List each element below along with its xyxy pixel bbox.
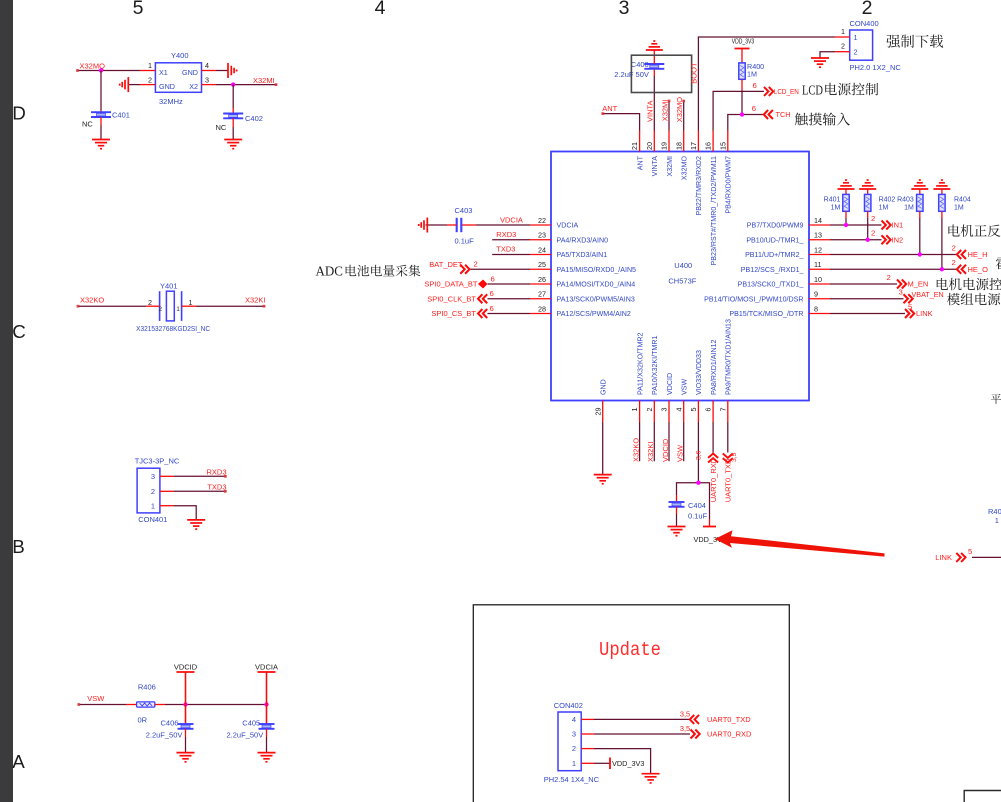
svg-text:UART0_TXD: UART0_TXD bbox=[707, 715, 751, 724]
svg-text:PA11/X32KO/TMR2: PA11/X32KO/TMR2 bbox=[636, 333, 644, 395]
annotation force download bbox=[886, 35, 943, 48]
svg-text:6: 6 bbox=[704, 408, 713, 412]
svg-text:2: 2 bbox=[854, 48, 858, 57]
svg-text:LINK: LINK bbox=[935, 553, 952, 562]
svg-text:6: 6 bbox=[490, 289, 494, 298]
wire net X32MQ pin1 bbox=[77, 70, 140, 72]
svg-text:20: 20 bbox=[645, 142, 654, 150]
svg-text:3: 3 bbox=[899, 288, 903, 297]
wire pin18 net X32MO bbox=[683, 100, 685, 130]
annotation motor power ctrl bbox=[937, 278, 1001, 290]
svg-text:2.2uF_50V: 2.2uF_50V bbox=[227, 731, 264, 740]
svg-text:TXD3: TXD3 bbox=[207, 482, 226, 491]
svg-text:5: 5 bbox=[689, 408, 698, 412]
svg-text:3,5: 3,5 bbox=[731, 452, 738, 462]
svg-text:13: 13 bbox=[814, 231, 822, 240]
connector CON402 PH2.54 1X4 bbox=[544, 701, 600, 784]
svg-text:VDCIA: VDCIA bbox=[255, 663, 278, 672]
svg-text:1M: 1M bbox=[904, 204, 914, 211]
svg-text:8: 8 bbox=[814, 304, 818, 313]
svg-text:21: 21 bbox=[630, 142, 639, 150]
ground R403 (inverted) bbox=[911, 188, 928, 190]
svg-text:2: 2 bbox=[645, 408, 654, 412]
port SPI0_CLK_BT pin27 bbox=[488, 298, 531, 300]
svg-text:PA15/MISO/RXD0_/AIN5: PA15/MISO/RXD0_/AIN5 bbox=[557, 266, 637, 274]
svg-text:C403: C403 bbox=[455, 206, 473, 215]
svg-text:VDD_3V3: VDD_3V3 bbox=[612, 759, 644, 768]
resistor R400 1M bbox=[739, 63, 745, 79]
svg-text:3,5: 3,5 bbox=[680, 710, 690, 719]
svg-text:PA12/SCS/PWM4/AIN2: PA12/SCS/PWM4/AIN2 bbox=[557, 310, 631, 318]
capacitor C405 bbox=[266, 705, 268, 725]
port UART0_RXD CON402 pin3 bbox=[581, 733, 594, 735]
svg-text:PA8/RXD1/AIN12: PA8/RXD1/AIN12 bbox=[710, 339, 718, 395]
resistor R404 1M bbox=[941, 189, 943, 194]
svg-text:RXD3: RXD3 bbox=[496, 230, 516, 239]
svg-text:CON402: CON402 bbox=[554, 701, 583, 710]
svg-text:PB12/SCS_/RXD1_: PB12/SCS_/RXD1_ bbox=[741, 266, 805, 274]
wire CON401 pin2 net TXD3 bbox=[160, 490, 174, 492]
BOOT option box bbox=[631, 55, 691, 92]
ground C405 bbox=[258, 752, 276, 754]
ground C400 (inverted) bbox=[646, 49, 663, 51]
svg-text:VSW: VSW bbox=[87, 694, 105, 703]
wire pin3 net VDCID bbox=[668, 422, 670, 461]
svg-text:9: 9 bbox=[814, 290, 818, 299]
svg-text:LINK: LINK bbox=[916, 309, 933, 318]
svg-text:CON401: CON401 bbox=[138, 515, 167, 524]
port LCD_EN pin16 bbox=[713, 91, 764, 130]
svg-text:1: 1 bbox=[151, 502, 155, 511]
svg-text:TXD3: TXD3 bbox=[496, 245, 515, 254]
wire pin5 to C404 junction bbox=[697, 422, 699, 483]
svg-text:3: 3 bbox=[660, 408, 669, 412]
svg-text:VINTA: VINTA bbox=[646, 100, 655, 122]
net VSW wire bbox=[78, 704, 126, 706]
svg-text:PA4/RXD3/AIN0: PA4/RXD3/AIN0 bbox=[557, 236, 609, 244]
resistor R402 1M bbox=[867, 189, 869, 194]
wire net X32MI pin3 bbox=[202, 84, 217, 86]
junction VDCID node bbox=[183, 702, 187, 706]
ground pin29 bbox=[594, 474, 612, 476]
capacitor C400 2.2uF 50V bbox=[644, 63, 664, 65]
ground C404 bbox=[668, 526, 686, 528]
svg-text:X321532768KGD2SI_NC: X321532768KGD2SI_NC bbox=[136, 324, 210, 333]
wire C401 to ground bbox=[100, 117, 102, 125]
svg-text:VSW: VSW bbox=[676, 444, 685, 462]
svg-text:LCD: LCD bbox=[802, 83, 823, 98]
port UART0_TXD pin7 bbox=[727, 422, 729, 453]
svg-text:X32MI: X32MI bbox=[253, 76, 275, 85]
svg-text:3: 3 bbox=[205, 76, 209, 85]
svg-text:1M: 1M bbox=[831, 204, 841, 211]
svg-text:2: 2 bbox=[148, 76, 152, 85]
wire net RXD3 pin23 bbox=[492, 239, 530, 241]
svg-text:LCD_EN: LCD_EN bbox=[774, 87, 799, 96]
svg-text:22: 22 bbox=[538, 216, 546, 225]
wire R403 to pin12 junction bbox=[919, 211, 921, 218]
svg-text:C404: C404 bbox=[688, 501, 706, 510]
wire CON401 pin3 net RXD3 bbox=[160, 475, 174, 477]
capacitor C401 bbox=[91, 111, 111, 113]
port IN2 pin13 bbox=[830, 239, 882, 241]
svg-text:2.2uF_50V: 2.2uF_50V bbox=[146, 731, 183, 740]
wire net TXD3 pin24 bbox=[492, 254, 530, 256]
svg-text:X32MO: X32MO bbox=[681, 156, 689, 181]
svg-text:PB7/TXD0/PWM9: PB7/TXD0/PWM9 bbox=[747, 222, 804, 230]
port TCH pin15 bbox=[728, 115, 764, 131]
svg-text:PH2.54 1X4_NC: PH2.54 1X4_NC bbox=[544, 775, 600, 784]
junction pin5 node bbox=[696, 481, 700, 485]
svg-text:PB11/UD+/TMR2_: PB11/UD+/TMR2_ bbox=[745, 251, 804, 259]
wire C405 to ground bbox=[266, 729, 268, 737]
power VDD_3V3 CON402 pin1 bbox=[581, 762, 594, 764]
svg-text:VDCIA: VDCIA bbox=[500, 215, 523, 224]
wire net X32KI bbox=[182, 305, 196, 307]
wire net ANT pin21 bbox=[602, 114, 640, 131]
svg-text:X32KI: X32KI bbox=[646, 442, 655, 462]
wire Y400 pin2 to ground bbox=[128, 84, 140, 86]
svg-text:28: 28 bbox=[538, 304, 546, 313]
wire C403 to ground bbox=[426, 224, 448, 226]
wire pin1 net X32KO bbox=[639, 422, 641, 461]
svg-text:32MHz: 32MHz bbox=[159, 97, 183, 106]
junction X32MQ bbox=[99, 68, 103, 72]
svg-text:5: 5 bbox=[908, 302, 912, 311]
port BAT_DET pin25 bbox=[469, 268, 530, 270]
svg-text:GND: GND bbox=[159, 82, 175, 91]
wire X32MQ down to C401 bbox=[100, 71, 102, 111]
svg-text:R403: R403 bbox=[897, 197, 914, 204]
svg-text:PB4/RXD0/PWM7: PB4/RXD0/PWM7 bbox=[725, 156, 733, 214]
annotation touch input bbox=[795, 113, 850, 126]
svg-text:4: 4 bbox=[674, 408, 683, 412]
svg-text:2: 2 bbox=[871, 229, 875, 238]
svg-text:B: B bbox=[12, 536, 25, 557]
wire net VDCIA pin22 bbox=[461, 224, 476, 226]
svg-text:TJC3-3P_NC: TJC3-3P_NC bbox=[135, 457, 180, 466]
svg-text:PB13/SCK0_/TXD1_: PB13/SCK0_/TXD1_ bbox=[738, 281, 805, 289]
capacitor C403 0.1uF bbox=[456, 218, 458, 232]
wire LINK right bbox=[972, 556, 1001, 558]
svg-text:0R: 0R bbox=[138, 715, 148, 724]
port VBAT_EN pin9 bbox=[830, 298, 904, 300]
svg-text:0.1uF: 0.1uF bbox=[688, 512, 708, 521]
svg-text:25: 25 bbox=[538, 260, 546, 269]
wire CON400 pin2 to ground bbox=[835, 51, 850, 53]
capacitor C402 bbox=[223, 113, 243, 115]
resistor R401 1M bbox=[845, 189, 847, 194]
svg-text:15: 15 bbox=[718, 142, 727, 150]
svg-text:5: 5 bbox=[133, 0, 144, 19]
svg-text:ADC: ADC bbox=[316, 264, 344, 279]
port HE_H pin12 bbox=[830, 254, 957, 256]
svg-text:3: 3 bbox=[572, 730, 576, 739]
svg-text:VIO33/VDD33: VIO33/VDD33 bbox=[695, 350, 703, 395]
svg-text:5: 5 bbox=[968, 547, 972, 556]
svg-text:3,6: 3,6 bbox=[695, 450, 702, 460]
ground CON401 bbox=[187, 519, 205, 521]
svg-text:PA9/TMR0/TXD1/AIN13: PA9/TMR0/TXD1/AIN13 bbox=[725, 319, 733, 395]
wire pin19 net X32MI bbox=[668, 100, 670, 130]
wire CON402 pin2 to ground bbox=[581, 748, 594, 750]
svg-text:PA5/TXD3/AIN1: PA5/TXD3/AIN1 bbox=[557, 251, 608, 259]
svg-text:C405: C405 bbox=[242, 718, 260, 727]
svg-text:PA14/MOSI/TXD0_/AIN4: PA14/MOSI/TXD0_/AIN4 bbox=[557, 281, 636, 289]
wire R406 to junctions bbox=[155, 704, 165, 706]
junction VDCIA node bbox=[264, 702, 268, 706]
svg-text:D: D bbox=[12, 103, 26, 124]
svg-text:VSW: VSW bbox=[681, 379, 689, 395]
svg-text:1M: 1M bbox=[747, 70, 757, 79]
ground C401 bbox=[92, 139, 110, 141]
ground C403 bbox=[426, 218, 428, 233]
annotation arrow bbox=[715, 530, 885, 556]
junction X32MI bbox=[231, 82, 235, 86]
svg-text:BAT_DET: BAT_DET bbox=[429, 260, 463, 269]
svg-text:SPI0_DATA_BT: SPI0_DATA_BT bbox=[424, 280, 477, 289]
port SPI0_DATA_BT pin26 bbox=[488, 283, 531, 285]
wire pin29 GND to ground bbox=[602, 422, 604, 475]
svg-text:3,5: 3,5 bbox=[680, 724, 690, 733]
svg-text:4: 4 bbox=[205, 61, 209, 70]
svg-text:23: 23 bbox=[538, 231, 546, 240]
svg-text:6: 6 bbox=[753, 81, 757, 90]
svg-text:C406: C406 bbox=[161, 718, 179, 727]
svg-text:RXD3: RXD3 bbox=[206, 467, 226, 476]
capacitor C406 bbox=[185, 705, 187, 725]
svg-text:M_EN: M_EN bbox=[908, 280, 929, 289]
wire C400 to ground bbox=[653, 50, 655, 64]
wire R400 to TCH junction bbox=[741, 79, 743, 90]
svg-text:R40: R40 bbox=[988, 507, 1001, 516]
port IN1 pin14 bbox=[830, 224, 882, 226]
svg-text:U400: U400 bbox=[674, 261, 692, 270]
connector CON400 PH2.0 bbox=[850, 19, 902, 72]
wire C404 branch bbox=[677, 483, 710, 519]
svg-text:1: 1 bbox=[148, 61, 152, 70]
svg-text:GND: GND bbox=[600, 379, 608, 395]
power VDCID bbox=[185, 672, 187, 705]
svg-text:PA13/SCK0/PWM5/AIN3: PA13/SCK0/PWM5/AIN3 bbox=[557, 295, 635, 303]
ground R402 (inverted) bbox=[859, 188, 876, 190]
svg-text:NC: NC bbox=[82, 120, 93, 129]
svg-text:CON400: CON400 bbox=[850, 19, 879, 28]
port LINK pin8 bbox=[830, 313, 905, 315]
svg-text:12: 12 bbox=[814, 245, 822, 254]
svg-text:VDCIA: VDCIA bbox=[557, 222, 579, 230]
svg-text:X32KO: X32KO bbox=[80, 296, 104, 305]
svg-text:VDD_3V3: VDD_3V3 bbox=[732, 37, 755, 46]
svg-text:16: 16 bbox=[704, 142, 713, 150]
svg-text:GND: GND bbox=[182, 68, 198, 77]
wire C402 to ground bbox=[232, 118, 234, 127]
svg-text:1: 1 bbox=[176, 306, 180, 313]
svg-text:SPI0_CLK_BT: SPI0_CLK_BT bbox=[427, 294, 476, 303]
svg-text:UART0_TXD: UART0_TXD bbox=[724, 458, 733, 502]
annotation ping (clipped top right) bbox=[991, 394, 1001, 404]
power VDCIA bbox=[266, 672, 268, 705]
capacitor C404 0.1uF bbox=[669, 501, 685, 503]
svg-text:2: 2 bbox=[952, 243, 956, 252]
port SPI0_CS_BT pin28 bbox=[488, 313, 531, 315]
ground Y400 pin4 bbox=[227, 63, 229, 78]
svg-text:NC: NC bbox=[216, 123, 227, 132]
svg-text:CH573F: CH573F bbox=[668, 277, 696, 286]
svg-text:R406: R406 bbox=[138, 682, 156, 691]
resistor R403 1M bbox=[919, 189, 921, 194]
svg-text:4: 4 bbox=[572, 715, 576, 724]
port M_EN pin10 bbox=[830, 283, 897, 285]
svg-text:7: 7 bbox=[718, 408, 727, 412]
svg-text:2: 2 bbox=[151, 487, 155, 496]
svg-text:17: 17 bbox=[689, 142, 698, 150]
svg-text:2: 2 bbox=[474, 260, 478, 269]
svg-text:1M: 1M bbox=[879, 204, 889, 211]
port HE_O pin11 bbox=[830, 268, 957, 270]
svg-text:IN1: IN1 bbox=[892, 221, 904, 230]
Update section box bbox=[473, 605, 789, 802]
svg-text:X32MO: X32MO bbox=[675, 97, 684, 123]
svg-text:1: 1 bbox=[630, 408, 639, 412]
power VDD_3V3 down bbox=[709, 519, 711, 527]
svg-text:BOOT: BOOT bbox=[690, 62, 699, 84]
svg-text:VBAT_EN: VBAT_EN bbox=[912, 290, 944, 299]
annotation module power bbox=[947, 293, 1000, 305]
svg-text:3: 3 bbox=[619, 0, 630, 19]
svg-text:2: 2 bbox=[862, 0, 873, 19]
wire R404 to pin11 junction bbox=[941, 211, 943, 218]
svg-text:R402: R402 bbox=[879, 197, 896, 204]
svg-text:VINTA: VINTA bbox=[651, 156, 659, 177]
svg-text:10: 10 bbox=[814, 275, 822, 284]
svg-text:X32KO: X32KO bbox=[631, 438, 640, 462]
svg-text:3: 3 bbox=[151, 472, 155, 481]
svg-text:PB23/RST#/TMR0_/TXD2/PWM11: PB23/RST#/TMR0_/TXD2/PWM11 bbox=[710, 156, 718, 266]
svg-text:6: 6 bbox=[491, 274, 495, 283]
wire C406 to ground bbox=[185, 729, 187, 737]
svg-text:TCH: TCH bbox=[776, 110, 791, 119]
svg-text:1: 1 bbox=[572, 759, 576, 768]
wire X32MI down to C402 bbox=[232, 85, 234, 108]
svg-text:24: 24 bbox=[538, 245, 546, 254]
connector CON401 TJC3-3P_NC bbox=[135, 457, 180, 525]
svg-text:PH2.0 1X2_NC: PH2.0 1X2_NC bbox=[850, 63, 902, 72]
wire CON401 pin1 to ground bbox=[160, 505, 174, 507]
svg-text:11: 11 bbox=[814, 260, 821, 269]
svg-text:SPI0_CS_BT: SPI0_CS_BT bbox=[431, 309, 476, 318]
svg-text:2: 2 bbox=[952, 258, 956, 267]
svg-text:18: 18 bbox=[674, 142, 683, 150]
svg-text:2: 2 bbox=[572, 744, 576, 753]
svg-text:1: 1 bbox=[841, 27, 845, 36]
port UART0_RXD pin6 bbox=[712, 422, 714, 453]
crystal Y400 bbox=[148, 51, 209, 106]
wire pin4 net VSW bbox=[683, 422, 685, 461]
svg-text:2: 2 bbox=[871, 214, 875, 223]
section box bottom right (partial) bbox=[964, 791, 1001, 802]
svg-text:Y401: Y401 bbox=[160, 282, 178, 291]
resistor R406 0R bbox=[137, 702, 155, 707]
svg-text:C402: C402 bbox=[245, 114, 263, 123]
svg-text:HE_H: HE_H bbox=[968, 250, 988, 259]
svg-text:R401: R401 bbox=[824, 197, 841, 204]
svg-text:2: 2 bbox=[887, 273, 891, 282]
svg-text:X32KI: X32KI bbox=[245, 296, 265, 305]
svg-text:ANT: ANT bbox=[602, 104, 617, 113]
svg-text:Y400: Y400 bbox=[171, 51, 189, 60]
svg-text:PB14/TIO/MOSI_/PWM10/DSR: PB14/TIO/MOSI_/PWM10/DSR bbox=[704, 295, 803, 303]
svg-text:Update: Update bbox=[599, 639, 661, 661]
wire R401 to pin14 junction bbox=[845, 211, 847, 218]
svg-text:1: 1 bbox=[995, 516, 999, 525]
svg-text:X32MI: X32MI bbox=[666, 156, 674, 177]
svg-text:UART0_RXD: UART0_RXD bbox=[709, 457, 718, 502]
svg-text:PB15/TCK/MISO_/DTR: PB15/TCK/MISO_/DTR bbox=[729, 310, 803, 318]
svg-text:C400: C400 bbox=[631, 60, 649, 69]
svg-text:X1: X1 bbox=[159, 68, 168, 77]
svg-text:VDCID: VDCID bbox=[666, 373, 674, 395]
svg-text:6: 6 bbox=[490, 304, 494, 313]
svg-text:C: C bbox=[12, 321, 26, 342]
svg-text:1: 1 bbox=[854, 33, 858, 42]
svg-text:A: A bbox=[12, 751, 25, 772]
wire pin17 net BOOT to CON400 bbox=[698, 37, 835, 131]
annotation motor fwd/rev bbox=[948, 224, 1000, 236]
port UART0_TXD CON402 pin4 bbox=[581, 718, 594, 720]
ground CON402 bbox=[642, 773, 660, 775]
wire pin20 VINTA to C400 bbox=[653, 69, 655, 76]
svg-text:2: 2 bbox=[158, 306, 162, 313]
ground R404 (inverted) bbox=[933, 188, 950, 190]
svg-text:27: 27 bbox=[538, 290, 546, 299]
wire Y400 pin4 to ground bbox=[202, 70, 217, 72]
ground Y400 pin2 bbox=[127, 77, 129, 92]
svg-text:PA10/X32KI/TMR1: PA10/X32KI/TMR1 bbox=[651, 336, 659, 395]
svg-text:PB10/UD-/TMR1_: PB10/UD-/TMR1_ bbox=[746, 236, 804, 244]
svg-text:26: 26 bbox=[538, 275, 546, 284]
svg-text:14: 14 bbox=[814, 216, 822, 225]
svg-text:HE_O: HE_O bbox=[968, 265, 989, 274]
svg-text:PB22/TMR3/RXD2: PB22/TMR3/RXD2 bbox=[695, 156, 703, 216]
svg-text:ANT: ANT bbox=[636, 155, 644, 170]
svg-text:X32MI: X32MI bbox=[660, 100, 669, 122]
wire net X32KO bbox=[78, 305, 147, 307]
svg-text:VDCID: VDCID bbox=[174, 663, 198, 672]
junction TCH R400 bbox=[740, 112, 744, 116]
svg-text:1M: 1M bbox=[954, 204, 964, 211]
wire CON400 pin1 stub bbox=[835, 36, 850, 38]
svg-text:R404: R404 bbox=[954, 197, 971, 204]
ground C406 bbox=[177, 752, 195, 754]
svg-text:VDCID: VDCID bbox=[661, 438, 670, 462]
svg-text:UART0_RXD: UART0_RXD bbox=[707, 730, 752, 739]
svg-text:4: 4 bbox=[375, 0, 386, 19]
ground C402 bbox=[224, 139, 242, 141]
svg-text:C401: C401 bbox=[112, 111, 130, 120]
op-amp U400 CH573F main IC bbox=[551, 152, 809, 401]
svg-text:19: 19 bbox=[660, 142, 669, 150]
ground R401 (inverted) bbox=[838, 188, 855, 190]
wire C404 to ground bbox=[676, 507, 678, 514]
svg-text:0.1uF: 0.1uF bbox=[455, 237, 475, 246]
annotation hall (clipped) bbox=[996, 257, 1001, 269]
svg-text:6: 6 bbox=[752, 104, 756, 113]
crystal Y401 bbox=[136, 282, 210, 334]
svg-text:29: 29 bbox=[593, 408, 602, 416]
svg-text:IN2: IN2 bbox=[892, 235, 904, 244]
svg-text:X2: X2 bbox=[189, 82, 198, 91]
